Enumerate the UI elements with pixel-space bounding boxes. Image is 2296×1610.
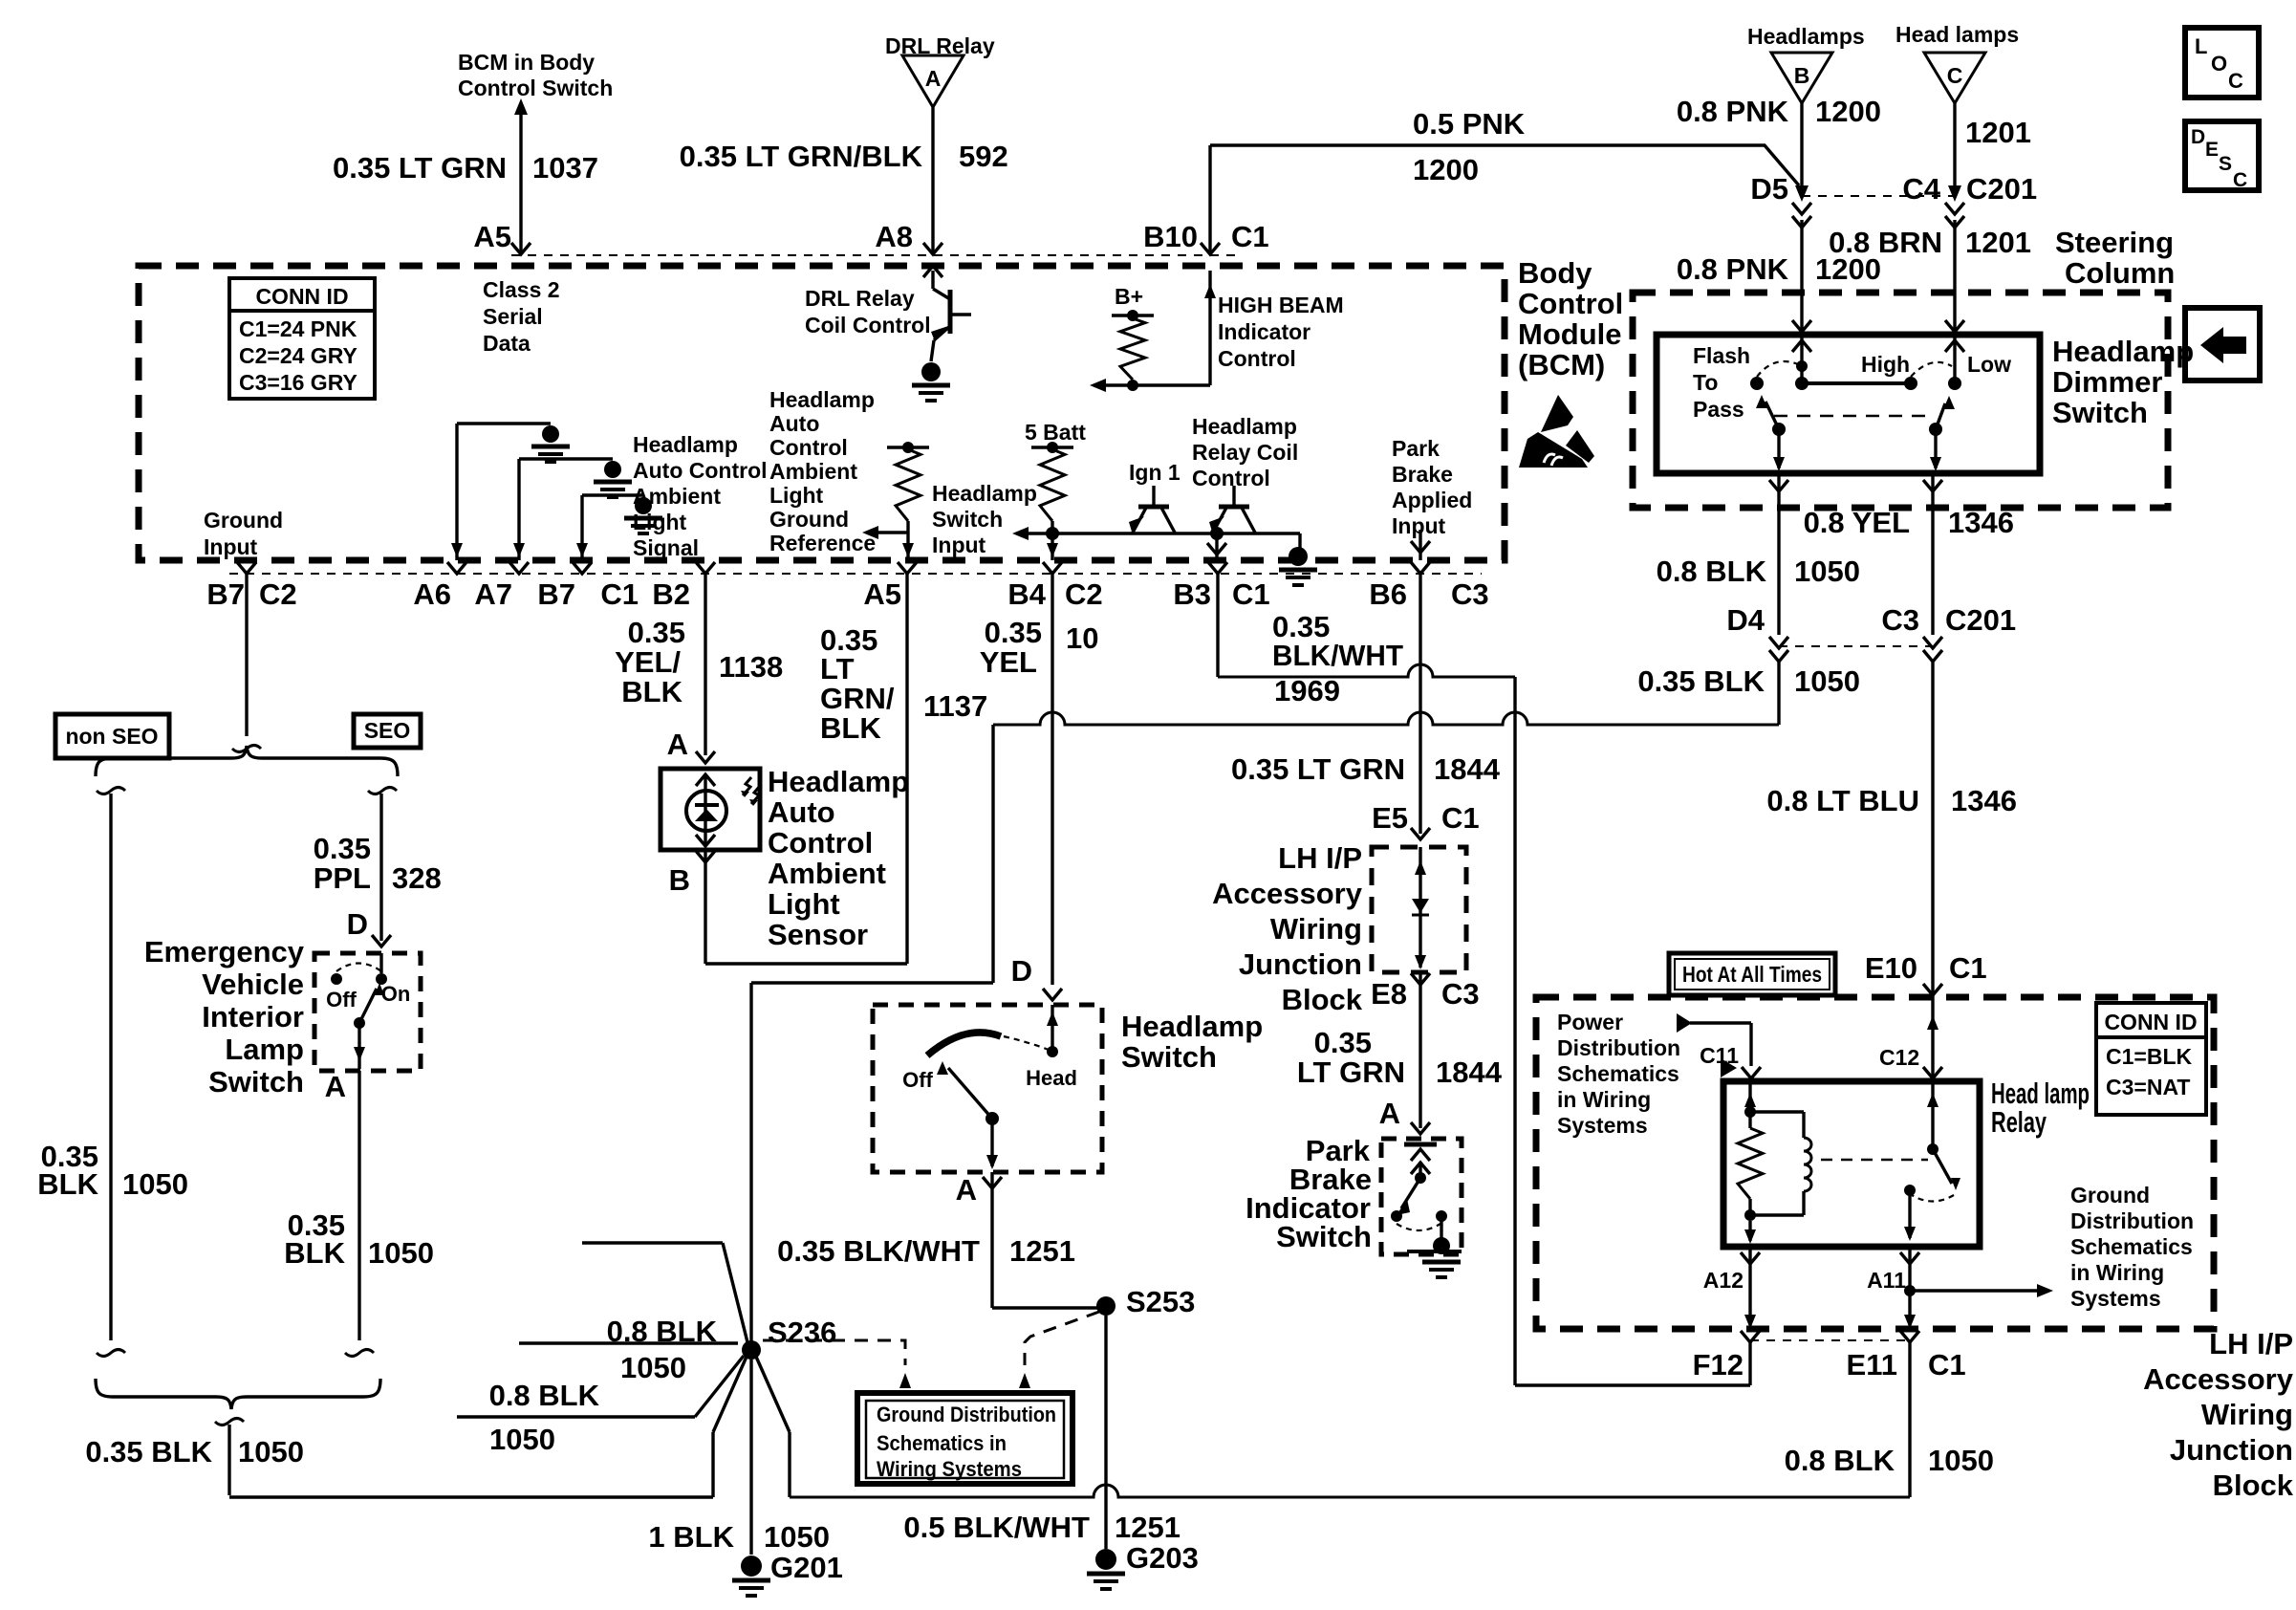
svg-text:Distribution: Distribution: [2070, 1208, 2194, 1233]
svg-text:B7: B7: [537, 577, 575, 611]
svg-text:328: 328: [392, 861, 442, 895]
svg-text:B3: B3: [1173, 577, 1211, 611]
svg-text:High: High: [1861, 352, 1910, 377]
svg-text:Headlamp: Headlamp: [1121, 1010, 1263, 1043]
svg-text:B: B: [1794, 63, 1810, 88]
svg-text:C: C: [2228, 69, 2243, 93]
svg-text:E5: E5: [1372, 801, 1408, 835]
svg-text:C3: C3: [1881, 603, 1919, 637]
svg-text:GRN/: GRN/: [820, 682, 895, 715]
svg-text:G201: G201: [770, 1551, 843, 1584]
svg-text:1201: 1201: [1965, 226, 2031, 259]
svg-text:Ign 1: Ign 1: [1129, 460, 1180, 485]
svg-text:PPL: PPL: [314, 861, 371, 895]
svg-text:C201: C201: [1945, 603, 2016, 637]
svg-text:Headlamp: Headlamp: [2052, 335, 2194, 368]
svg-text:(BCM): (BCM): [1518, 348, 1605, 381]
svg-text:C2: C2: [1065, 577, 1103, 611]
svg-text:Off: Off: [902, 1068, 933, 1092]
svg-text:Accessory: Accessory: [1212, 877, 1363, 910]
svg-text:1037: 1037: [532, 151, 598, 185]
svg-text:C: C: [1947, 63, 1963, 88]
svg-text:A: A: [325, 1070, 346, 1103]
svg-text:1138: 1138: [719, 650, 783, 684]
svg-text:Flash: Flash: [1693, 343, 1750, 368]
svg-text:Ambient: Ambient: [769, 459, 857, 484]
svg-text:1969: 1969: [1274, 674, 1340, 707]
svg-text:BLK/WHT: BLK/WHT: [1272, 639, 1403, 672]
svg-text:Class 2: Class 2: [483, 277, 560, 302]
svg-text:Reference: Reference: [769, 531, 876, 555]
svg-text:1050: 1050: [1794, 555, 1860, 588]
svg-text:C2=24 GRY: C2=24 GRY: [239, 343, 357, 368]
svg-text:Systems: Systems: [2070, 1286, 2161, 1311]
svg-text:CONN ID: CONN ID: [255, 284, 348, 309]
svg-text:S236: S236: [768, 1316, 836, 1349]
svg-text:LT: LT: [820, 652, 855, 685]
svg-text:0.35: 0.35: [985, 616, 1042, 649]
svg-text:G203: G203: [1126, 1541, 1199, 1575]
svg-text:Ambient: Ambient: [768, 857, 886, 890]
svg-text:Ground: Ground: [769, 507, 849, 532]
svg-text:Sensor: Sensor: [768, 918, 868, 951]
svg-text:BCM in Body: BCM in Body: [458, 50, 595, 75]
svg-text:1050: 1050: [1794, 664, 1860, 698]
svg-text:DRL Relay: DRL Relay: [805, 286, 915, 311]
svg-text:C3=NAT: C3=NAT: [2106, 1075, 2190, 1099]
svg-text:592: 592: [959, 140, 1008, 173]
svg-text:Light: Light: [633, 510, 687, 534]
svg-text:Auto: Auto: [768, 795, 835, 829]
svg-text:in Wiring: in Wiring: [2070, 1260, 2164, 1285]
svg-text:0.35 BLK: 0.35 BLK: [85, 1435, 212, 1469]
svg-text:A6: A6: [413, 577, 451, 611]
svg-text:0.5 PNK: 0.5 PNK: [1413, 107, 1526, 141]
svg-text:Off: Off: [326, 988, 357, 1012]
svg-text:Lamp: Lamp: [225, 1033, 304, 1066]
svg-text:Body: Body: [1518, 256, 1592, 290]
svg-text:CONN ID: CONN ID: [2104, 1010, 2197, 1034]
svg-text:Head lamps: Head lamps: [1895, 22, 2019, 47]
svg-text:1346: 1346: [1951, 784, 2017, 817]
svg-text:Control: Control: [1218, 346, 1296, 371]
svg-text:To: To: [1693, 370, 1718, 395]
svg-text:0.8 BLK: 0.8 BLK: [607, 1315, 718, 1348]
svg-text:C201: C201: [1966, 172, 2037, 206]
svg-text:S: S: [2219, 153, 2232, 175]
svg-text:L: L: [2195, 34, 2207, 58]
svg-text:0.8 LT BLU: 0.8 LT BLU: [1766, 784, 1919, 817]
svg-text:Hot At All Times: Hot At All Times: [1682, 962, 1822, 987]
svg-text:Indicator: Indicator: [1218, 319, 1310, 344]
svg-text:Relay Coil: Relay Coil: [1192, 440, 1298, 465]
svg-text:E8: E8: [1371, 977, 1407, 1011]
svg-text:Column: Column: [2065, 256, 2175, 290]
svg-text:B4: B4: [1007, 577, 1046, 611]
svg-text:Control Switch: Control Switch: [458, 76, 613, 100]
svg-text:Interior: Interior: [202, 1000, 304, 1033]
svg-text:0.35 LT GRN/BLK: 0.35 LT GRN/BLK: [680, 140, 923, 173]
svg-text:LH I/P: LH I/P: [2209, 1327, 2293, 1360]
svg-text:1200: 1200: [1815, 95, 1881, 128]
svg-text:1050: 1050: [1928, 1444, 1994, 1477]
svg-text:B2: B2: [652, 577, 690, 611]
svg-text:C1=BLK: C1=BLK: [2106, 1044, 2192, 1069]
svg-text:A12: A12: [1703, 1268, 1744, 1293]
svg-text:A: A: [1379, 1097, 1400, 1130]
svg-text:1 BLK: 1 BLK: [648, 1520, 734, 1554]
svg-text:0.35: 0.35: [314, 832, 371, 865]
svg-text:Vehicle: Vehicle: [202, 968, 304, 1001]
svg-text:0.35 BLK: 0.35 BLK: [1637, 664, 1765, 698]
svg-text:1050: 1050: [489, 1423, 555, 1456]
svg-text:Signal: Signal: [633, 535, 699, 560]
svg-text:Ground: Ground: [2070, 1183, 2150, 1207]
svg-text:0.8 BLK: 0.8 BLK: [489, 1379, 600, 1412]
svg-text:BLK: BLK: [284, 1236, 345, 1270]
svg-text:Data: Data: [483, 331, 531, 356]
svg-text:BLK: BLK: [820, 711, 881, 745]
svg-text:S253: S253: [1126, 1285, 1195, 1318]
svg-text:HIGH BEAM: HIGH BEAM: [1218, 293, 1344, 317]
svg-text:Pass: Pass: [1693, 397, 1744, 422]
svg-text:LT GRN: LT GRN: [1297, 1055, 1405, 1089]
svg-text:Control: Control: [768, 826, 873, 859]
svg-text:0.8 BLK: 0.8 BLK: [1785, 1444, 1895, 1477]
svg-text:1200: 1200: [1413, 153, 1479, 186]
svg-text:Headlamp: Headlamp: [1192, 414, 1297, 439]
svg-text:SEO: SEO: [364, 718, 411, 743]
svg-text:E: E: [2205, 139, 2219, 161]
svg-text:Switch: Switch: [932, 507, 1003, 532]
svg-text:0.35: 0.35: [628, 616, 685, 649]
svg-text:1251: 1251: [1009, 1234, 1075, 1268]
svg-text:Headlamp: Headlamp: [768, 765, 909, 798]
svg-text:Switch: Switch: [1121, 1040, 1217, 1074]
svg-text:0.8 PNK: 0.8 PNK: [1677, 95, 1789, 128]
svg-text:A8: A8: [875, 220, 913, 253]
svg-text:non SEO: non SEO: [65, 724, 158, 749]
svg-text:Headlamp: Headlamp: [633, 432, 738, 457]
svg-text:1050: 1050: [368, 1236, 434, 1270]
svg-text:Applied: Applied: [1392, 488, 1472, 512]
svg-text:Headlamp: Headlamp: [932, 481, 1037, 506]
svg-text:Auto: Auto: [769, 411, 819, 436]
svg-text:D: D: [347, 907, 368, 941]
svg-text:Block: Block: [2213, 1469, 2294, 1502]
svg-text:1200: 1200: [1815, 252, 1881, 286]
svg-text:A: A: [956, 1173, 977, 1207]
svg-text:Input: Input: [932, 533, 986, 557]
svg-text:Schematics: Schematics: [2070, 1234, 2193, 1259]
svg-text:Low: Low: [1967, 352, 2011, 377]
svg-text:1251: 1251: [1115, 1511, 1180, 1544]
svg-text:A11: A11: [1867, 1268, 1906, 1293]
svg-text:B6: B6: [1369, 577, 1407, 611]
svg-text:Serial: Serial: [483, 304, 543, 329]
svg-text:Junction: Junction: [2170, 1433, 2293, 1467]
svg-text:0.8 YEL: 0.8 YEL: [1804, 506, 1910, 539]
svg-text:Wiring Systems: Wiring Systems: [877, 1457, 1022, 1481]
svg-text:Park: Park: [1392, 436, 1440, 461]
svg-text:1050: 1050: [122, 1167, 188, 1201]
svg-text:B7: B7: [206, 577, 245, 611]
svg-text:Headlamps: Headlamps: [1747, 24, 1865, 49]
svg-text:1844: 1844: [1434, 752, 1501, 786]
svg-text:1137: 1137: [923, 689, 987, 723]
svg-text:Junction: Junction: [1239, 947, 1362, 981]
svg-text:C3=16 GRY: C3=16 GRY: [239, 370, 357, 395]
svg-text:Dimmer: Dimmer: [2052, 365, 2162, 399]
svg-text:B: B: [669, 863, 690, 897]
svg-text:C1: C1: [1441, 801, 1480, 835]
svg-text:Light: Light: [768, 887, 840, 921]
svg-text:Emergency: Emergency: [144, 935, 305, 968]
svg-text:Control: Control: [1192, 466, 1270, 490]
svg-text:BLK: BLK: [621, 675, 682, 708]
svg-text:Input: Input: [204, 534, 258, 559]
svg-text:Module: Module: [1518, 317, 1622, 351]
svg-text:A7: A7: [474, 577, 512, 611]
svg-text:0.35 LT GRN: 0.35 LT GRN: [333, 151, 507, 185]
svg-text:D5: D5: [1750, 172, 1788, 206]
svg-text:Control: Control: [769, 435, 848, 460]
svg-text:C1: C1: [1928, 1348, 1966, 1382]
svg-text:C1=24 PNK: C1=24 PNK: [239, 316, 357, 341]
svg-text:Switch: Switch: [1276, 1220, 1372, 1253]
svg-text:Control: Control: [1518, 287, 1623, 320]
svg-text:Input: Input: [1392, 513, 1446, 538]
svg-text:A: A: [925, 66, 942, 91]
svg-text:0.35 LT GRN: 0.35 LT GRN: [1231, 752, 1405, 786]
svg-text:Ground Distribution: Ground Distribution: [877, 1403, 1056, 1426]
svg-text:O: O: [2211, 52, 2227, 76]
svg-text:E11: E11: [1847, 1348, 1897, 1382]
svg-text:A: A: [667, 728, 688, 761]
svg-text:C1: C1: [600, 577, 639, 611]
svg-text:Ground: Ground: [204, 508, 283, 533]
svg-text:Relay: Relay: [1991, 1105, 2047, 1139]
svg-text:C1: C1: [1232, 577, 1270, 611]
svg-text:Power: Power: [1557, 1010, 1623, 1034]
svg-text:C2: C2: [259, 577, 297, 611]
svg-text:1050: 1050: [764, 1520, 830, 1554]
svg-text:Switch: Switch: [208, 1065, 304, 1099]
svg-text:YEL/: YEL/: [615, 645, 681, 679]
svg-text:1844: 1844: [1436, 1055, 1503, 1089]
svg-text:Wiring: Wiring: [1270, 912, 1362, 946]
svg-text:Accessory: Accessory: [2143, 1362, 2294, 1396]
svg-text:Ambient: Ambient: [633, 484, 721, 509]
svg-text:Light: Light: [769, 483, 824, 508]
svg-text:D4: D4: [1726, 603, 1765, 637]
svg-text:A5: A5: [863, 577, 901, 611]
svg-text:Steering: Steering: [2055, 226, 2174, 259]
svg-text:B10: B10: [1143, 220, 1198, 253]
svg-text:1346: 1346: [1948, 506, 2014, 539]
svg-text:C4: C4: [1902, 172, 1940, 206]
svg-text:5 Batt: 5 Batt: [1025, 420, 1086, 445]
svg-text:A5: A5: [473, 220, 511, 253]
svg-text:Coil Control: Coil Control: [805, 313, 931, 337]
svg-text:C3: C3: [1451, 577, 1489, 611]
svg-text:C1: C1: [1949, 951, 1987, 985]
svg-text:1050: 1050: [620, 1351, 686, 1384]
svg-text:0.5 BLK/WHT: 0.5 BLK/WHT: [903, 1511, 1090, 1544]
svg-text:Block: Block: [1282, 983, 1363, 1016]
svg-text:Switch: Switch: [2052, 396, 2148, 429]
svg-text:1201: 1201: [1965, 116, 2031, 149]
svg-text:10: 10: [1066, 621, 1098, 655]
svg-text:C: C: [2233, 169, 2247, 191]
svg-text:C12: C12: [1879, 1045, 1919, 1070]
svg-text:1050: 1050: [238, 1435, 304, 1469]
svg-text:BLK: BLK: [37, 1167, 98, 1201]
svg-text:Wiring: Wiring: [2201, 1398, 2293, 1431]
svg-text:Systems: Systems: [1557, 1113, 1648, 1138]
svg-text:C3: C3: [1441, 977, 1480, 1011]
svg-text:0.35 BLK/WHT: 0.35 BLK/WHT: [777, 1234, 980, 1268]
svg-text:0.35: 0.35: [1314, 1026, 1372, 1059]
svg-text:Auto Control: Auto Control: [633, 458, 768, 483]
svg-text:F12: F12: [1693, 1348, 1744, 1382]
svg-text:in Wiring: in Wiring: [1557, 1087, 1651, 1112]
svg-text:C1: C1: [1231, 220, 1269, 253]
svg-text:Head: Head: [1026, 1066, 1077, 1090]
svg-text:E10: E10: [1865, 951, 1917, 985]
svg-text:D: D: [1011, 954, 1032, 988]
svg-text:On: On: [381, 982, 411, 1006]
svg-text:0.8 BLK: 0.8 BLK: [1657, 555, 1767, 588]
svg-text:Schematics: Schematics: [1557, 1061, 1679, 1086]
svg-text:Distribution: Distribution: [1557, 1035, 1680, 1060]
svg-text:C11: C11: [1700, 1043, 1739, 1068]
svg-text:YEL: YEL: [980, 645, 1037, 679]
svg-text:LH I/P: LH I/P: [1278, 841, 1362, 875]
svg-text:Schematics in: Schematics in: [877, 1431, 1007, 1455]
svg-text:Brake: Brake: [1392, 462, 1453, 487]
svg-text:0.8 PNK: 0.8 PNK: [1677, 252, 1789, 286]
svg-text:Headlamp: Headlamp: [769, 387, 875, 412]
svg-text:D: D: [2191, 126, 2205, 148]
svg-text:B+: B+: [1115, 284, 1143, 309]
